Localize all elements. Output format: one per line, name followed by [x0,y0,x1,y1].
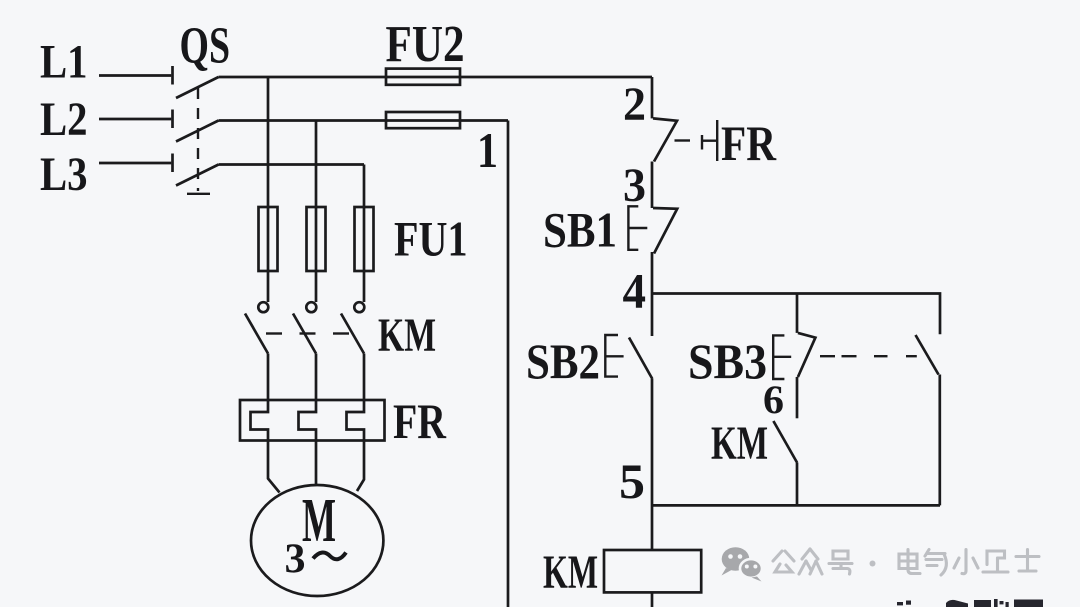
svg-text:SB3: SB3 [688,333,767,389]
svg-text:FR: FR [393,393,447,449]
svg-text:FR: FR [721,115,777,171]
svg-text:KM: KM [711,417,768,470]
svg-text:SB2: SB2 [526,333,600,389]
svg-text:5: 5 [619,453,645,509]
svg-text:4: 4 [623,263,647,319]
svg-text:L2: L2 [40,93,88,146]
svg-text:FU2: FU2 [386,16,465,73]
svg-text:L1: L1 [40,36,88,89]
svg-text:L3: L3 [40,148,88,201]
svg-text:SB1: SB1 [543,202,617,258]
svg-text:KM: KM [543,546,598,599]
svg-text:2: 2 [623,78,646,131]
svg-text:QS: QS [180,18,231,75]
svg-text:3: 3 [285,537,306,583]
svg-text:FU1: FU1 [394,211,468,267]
svg-text:3: 3 [623,159,646,212]
svg-text:KM: KM [378,309,436,362]
svg-text:M: M [302,487,336,555]
svg-text:1: 1 [477,122,498,178]
